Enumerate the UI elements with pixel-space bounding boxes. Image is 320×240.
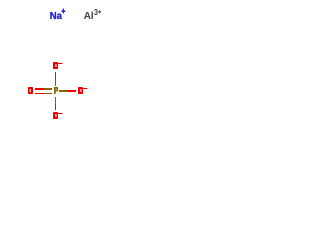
minus charge (right O) [83, 88, 88, 89]
minus charge (bottom O) [58, 113, 62, 114]
cation Al3+ [84, 7, 101, 22]
single bond P-O (right) [59, 90, 76, 92]
svg-text:Al: Al [84, 11, 94, 22]
minus charge (top O) [58, 63, 62, 64]
atom O- (top) [53, 62, 58, 69]
atom O (left, double-bonded oxygen) [28, 87, 33, 94]
double bond O=P (left), upper line [35, 88, 52, 90]
double bond O=P (left), lower line [35, 93, 52, 94]
cation Na+ [50, 9, 66, 23]
atom O- (bottom) [53, 112, 58, 119]
atom P (central phosphorus) [54, 87, 58, 94]
single bond P-O (top) [55, 72, 56, 86]
svg-text:Na: Na [50, 11, 63, 22]
svg-text:3: 3 [94, 7, 98, 17]
atom O- (right) [78, 87, 83, 94]
single bond P-O (bottom) [55, 97, 56, 110]
